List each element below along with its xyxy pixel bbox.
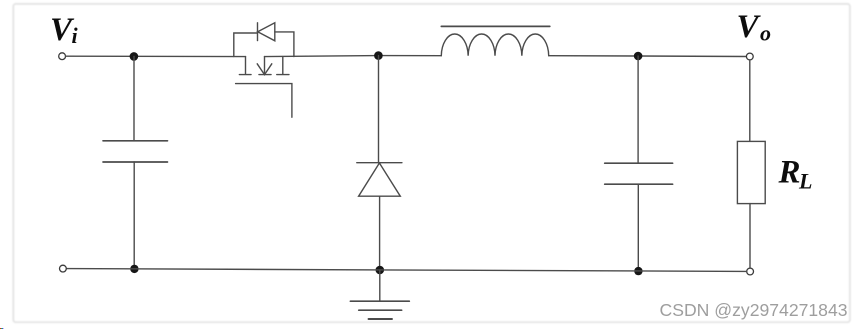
wire: top rail right (L1 to Vo terminal) — [549, 55, 747, 58]
svg-text:o: o — [760, 21, 771, 46]
capacitor C1 (input filter) — [103, 56, 168, 269]
wire: Vo terminal down to RL — [749, 60, 751, 141]
svg-text:V: V — [737, 9, 762, 45]
junction: C2 bottom to bottom rail — [634, 267, 642, 275]
wire: bottom rail — [66, 269, 747, 272]
junction: C1 bottom to bottom rail — [130, 265, 138, 273]
wire: RL down to return terminal — [749, 204, 751, 269]
node Vo — [737, 9, 772, 45]
inductor L1 — [441, 26, 550, 55]
transistor Q1 (power MOSFET switch) — [236, 57, 292, 118]
label RL — [778, 155, 813, 194]
svg-text:i: i — [72, 23, 79, 48]
junction: C2 top to output net — [634, 52, 643, 61]
ground — [350, 270, 409, 319]
wire: top rail left (Vi terminal to Q1 drain) — [66, 55, 246, 57]
node Vi — [50, 12, 79, 48]
junction: C1 top to switch-input net — [130, 52, 139, 61]
junction: D1 anode to bottom rail — [376, 266, 385, 275]
svg-text:CSDN @zy2974271843: CSDN @zy2974271843 — [660, 300, 848, 320]
resistor RL (load) — [737, 141, 765, 203]
svg-text:L: L — [798, 169, 812, 194]
output terminal (return) — [747, 268, 754, 275]
capacitor C2 (output filter) — [605, 56, 673, 271]
wire: top rail middle (Q1 source to L1) — [265, 56, 442, 57]
svg-text:R: R — [778, 155, 801, 191]
input terminal (return) — [60, 265, 67, 272]
junction: switch node (D1 cathode) — [374, 51, 383, 60]
input terminal (Vi+) — [59, 53, 66, 60]
output terminal (Vo+) — [746, 53, 753, 60]
diode D1 (freewheeling) — [357, 56, 402, 270]
body diode of Q1 — [234, 23, 294, 57]
